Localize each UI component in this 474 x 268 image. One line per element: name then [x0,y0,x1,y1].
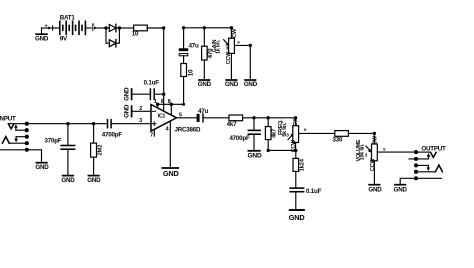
svg-text:INPUT: INPUT [0,116,16,123]
svg-text:47u: 47u [198,108,208,115]
svg-text:JRC386D: JRC386D [175,126,202,133]
wire to resistor [119,27,133,29]
connector battery minus terminal [45,25,55,30]
svg-text:GND: GND [225,81,239,88]
resistor R 10 (gain) [181,64,195,77]
svg-text:10: 10 [187,69,194,76]
wire gain network to pins 1-8 [157,77,184,105]
node 370pF [66,122,69,125]
svg-text:s: s [304,127,307,132]
svg-text:OUTPUT: OUTPUT [421,145,446,152]
wire gain rail [184,27,232,29]
svg-text:BAT1: BAT1 [60,15,76,22]
capacitor C 370pF [45,124,75,175]
svg-text:4700pF: 4700pF [102,131,123,138]
svg-text:s: s [237,39,240,44]
svg-text:CW: CW [372,135,378,145]
node 4k7 vertical [267,116,270,119]
ground under tone 0.1uF [289,210,305,222]
svg-text:2M2: 2M2 [97,145,103,156]
wire volume wiper to output jack [377,151,416,153]
svg-text:4k7: 4k7 [227,121,237,128]
node 4700pF [252,116,255,119]
node V+ decoupling [162,93,165,96]
capacitor C 47u (output, polarized) [197,108,209,122]
wire cap to 4k7 [203,117,229,119]
node V+ [162,26,165,29]
wire gnd to cap [132,93,151,95]
wire input signal [27,123,108,125]
ground under 4700pF [247,151,261,160]
svg-text:8: 8 [168,99,171,105]
connector INPUT jack [0,116,42,152]
svg-text:GND: GND [289,213,305,222]
pin 4 stub wire to ground [169,122,171,168]
svg-text:s: s [383,146,386,151]
capacitor C 0.1uF (tone) [290,188,321,209]
wire GND to battery [41,28,43,34]
svg-text:3: 3 [286,133,289,138]
svg-text:GND: GND [244,81,258,88]
wire resistor to V+ node [147,27,163,29]
node 2M2 [92,122,95,125]
ground under volume pot [368,185,382,194]
node freq pot top [294,116,297,119]
node volume pot top [373,132,376,135]
resistor R 470 [202,28,214,80]
pin 5 output wire [177,117,197,119]
ground under 2M2 [87,176,101,184]
resistor R 2M2 [91,124,104,175]
potentiometer GAIN 1k lin [212,28,238,80]
node pin 8 [170,103,173,106]
svg-text:GND: GND [35,164,49,171]
capacitor C 47u (gain, polarized) [179,43,199,56]
potentiometer VOLUME 10k lin [356,133,378,184]
svg-text:GND: GND [368,187,382,194]
svg-text:GND: GND [124,87,131,101]
ground under 370pF [61,176,75,184]
svg-text:GND: GND [198,81,212,88]
node corner [182,103,185,106]
wire diode parallel branch [106,28,119,43]
svg-text:CW: CW [232,28,238,38]
ground IC pin 4 [162,168,179,178]
resistor R 1k24 [293,150,306,187]
wire 4k7 to tone network [243,117,296,119]
svg-text:1k24: 1k24 [300,158,306,171]
resistor R 4k7 (series) [227,115,243,128]
svg-text:6: 6 [161,99,164,105]
ground input jack [35,163,49,172]
ground under gain wiper [244,80,258,88]
battery BAT1 9V [56,15,92,43]
connector OUTPUT jack [409,145,446,180]
ground battery minus [35,34,49,42]
svg-text:370pF: 370pF [45,137,62,144]
svg-text:10: 10 [132,31,139,38]
pin 8 stub [170,104,172,115]
ground under gain pot [225,80,239,88]
svg-text:2: 2 [139,106,142,112]
resistor R 4k7 (tone vertical) [265,118,277,151]
ground sideways (0.1uF) [124,87,132,101]
wire pin 2 [132,110,151,112]
wire cap to pin 3 [111,123,151,125]
svg-text:4700pF: 4700pF [229,135,250,142]
node gain rail right [230,26,233,29]
svg-text:4: 4 [166,126,169,132]
capacitor C 0.1uF (decoupling) [144,79,160,99]
svg-text:5: 5 [179,113,182,119]
svg-text:CW: CW [293,117,299,127]
svg-text:47u: 47u [189,43,199,50]
svg-text:0.1uF: 0.1uF [144,79,160,86]
pin 1 stub [157,104,159,108]
svg-text:0.1uF: 0.1uF [306,188,322,195]
svg-text:IC1: IC1 [158,113,166,119]
node gain rail left [182,26,185,29]
wire input sleeve to gnd [41,150,43,162]
svg-text:GND: GND [61,177,75,184]
svg-text:7: 7 [150,133,153,139]
node gain rail mid [203,26,206,29]
wire tone bottom [268,149,296,151]
svg-text:4k7: 4k7 [272,129,278,138]
wire gain pot wiper [234,44,250,46]
svg-text:GND: GND [247,153,261,160]
svg-text:330: 330 [333,137,343,144]
svg-text:GND: GND [394,187,408,194]
pin 7 stub [153,129,155,136]
svg-text:3: 3 [139,118,142,124]
wire wiper to ground [249,45,251,79]
wire cap to V+ [154,93,164,95]
node pin 1 [156,103,159,106]
ground sideways (pin 2) [124,104,132,118]
svg-text:GND: GND [163,169,180,178]
ground under R470 [198,80,212,88]
node diode junction right [118,26,121,29]
node tone bottom left [267,149,270,152]
node tone bottom right [294,149,297,152]
svg-text:1k lin.: 1k lin. [216,39,222,54]
node gain wiper [249,44,252,47]
ground output jack sleeve [394,185,408,194]
svg-text:CCW: CCW [370,158,376,171]
op-amp IC1 JRC386D [151,105,201,134]
svg-text:GND: GND [87,177,101,184]
resistor R 330 [333,131,349,144]
diode D2 [109,40,116,47]
diode D1 [106,24,119,31]
svg-text:9V: 9V [60,35,68,42]
wire [42,27,49,29]
wire V+ down to IC pin 6 [163,28,165,111]
capacitor C 4700pF (tone) [229,118,260,151]
potentiometer FREQ 5k lin [278,117,299,153]
wire freq pot wiper to 330 [299,132,335,134]
node diode junction left [104,26,107,29]
capacitor C 4700pF (input series) [102,120,123,139]
resistor R 10 (power) [132,25,148,37]
connector battery plus terminal [92,23,106,30]
wire rail to C 47u [183,28,185,49]
svg-text:GND: GND [35,36,49,43]
svg-text:3: 3 [365,153,368,158]
wire cap to resistor [183,56,185,64]
wire 330 to volume pot [348,132,374,134]
wire sleeve gnd riser [400,178,416,184]
svg-text:GND: GND [124,104,131,118]
